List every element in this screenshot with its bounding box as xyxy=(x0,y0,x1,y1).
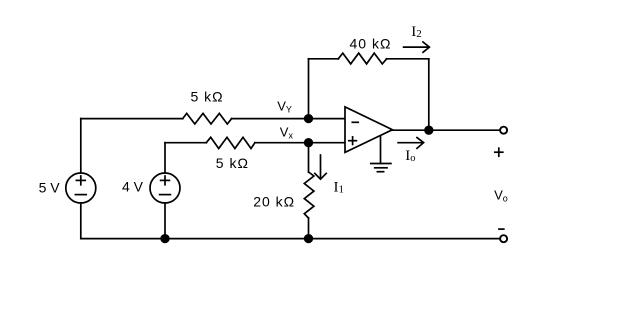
wire feedback top left segment xyxy=(309,58,339,60)
wire 5V bottom stem xyxy=(80,203,82,239)
resistor R1 5k (top horizontal) xyxy=(183,113,232,124)
svg-text:40 kΩ: 40 kΩ xyxy=(350,35,392,51)
wire Vx left segment xyxy=(165,142,206,144)
arrow Io xyxy=(398,138,424,149)
plus sign output polarity xyxy=(495,148,503,156)
svg-text:5 V: 5 V xyxy=(39,180,61,196)
arrow I1 xyxy=(315,155,326,179)
wire 20k top stem xyxy=(308,143,310,172)
svg-text:4 V: 4 V xyxy=(122,178,144,194)
node bottom 20k junction xyxy=(305,235,313,243)
node Vy junction xyxy=(305,115,313,123)
op-amp U1 xyxy=(345,107,392,152)
resistor R3 20k (vertical) xyxy=(304,172,314,218)
wire 4V top stem xyxy=(164,143,166,173)
arrow I2 xyxy=(404,42,430,52)
wire 4V bottom stem xyxy=(164,203,166,239)
svg-text:5 kΩ: 5 kΩ xyxy=(216,155,249,171)
wire left rail vertical xyxy=(80,119,82,173)
source V1 5V xyxy=(66,173,96,203)
wire Vy right segment to op-amp xyxy=(232,118,345,120)
ground xyxy=(371,137,391,172)
wire feedback top right segment xyxy=(387,58,429,60)
wire feedback left vertical xyxy=(308,59,310,119)
node bottom 4V junction xyxy=(161,235,169,243)
node output junction xyxy=(425,126,433,134)
svg-text:20 kΩ: 20 kΩ xyxy=(253,193,295,209)
terminal output minus xyxy=(500,235,507,242)
terminal output plus xyxy=(500,127,507,134)
svg-text:5 kΩ: 5 kΩ xyxy=(191,88,224,104)
wire feedback right vertical xyxy=(428,59,430,130)
node Vx junction xyxy=(305,139,313,147)
wire bottom rail xyxy=(81,238,500,240)
wire op-amp output xyxy=(392,129,500,131)
wire 20k bottom stem xyxy=(308,218,310,239)
source V2 4V xyxy=(150,173,180,203)
minus sign output polarity xyxy=(499,228,504,230)
resistor R4 40k (feedback) xyxy=(338,53,386,64)
wire Vx right segment to op-amp xyxy=(255,142,345,144)
wire Vy left segment xyxy=(81,118,183,120)
resistor R2 5k (lower horizontal) xyxy=(206,137,255,148)
